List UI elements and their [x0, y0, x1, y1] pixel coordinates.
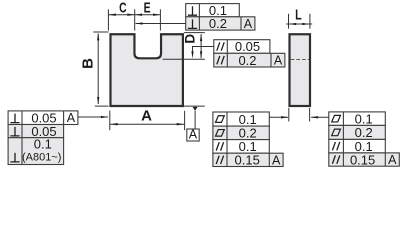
feature control frame FCF4 row3: parallelism 0.1 — [213, 139, 269, 154]
svg-text:D: D — [183, 34, 198, 44]
side view hidden center dashed line — [291, 59, 309, 61]
feature control frame FCF5 row4: parallelism 0.15 A — [329, 152, 400, 167]
feature control frame FCF3 row2: perpendicularity 0.05 — [8, 124, 64, 139]
svg-text:0.15: 0.15 — [350, 152, 375, 167]
feature control frame FCF1 row2: perpendicularity 0.2 A — [186, 16, 255, 31]
feature control frame FCF2 row2: parallelism 0.2 A — [214, 53, 285, 68]
svg-text:B: B — [79, 58, 96, 69]
feature control frame FCF4 row2: flatness 0.2 — [213, 126, 269, 141]
feature control frame FCF4 row4: parallelism 0.15 A — [213, 153, 283, 168]
feature control frame FCF5 row1: flatness 0.1 — [329, 111, 386, 126]
svg-text:A: A — [189, 128, 198, 142]
feature control frame FCF5 row2: flatness 0.2 — [329, 125, 386, 140]
feature control frame FCF3 row1: perpendicularity 0.05 A — [8, 110, 78, 125]
dimension E — [135, 0, 161, 16]
feature control frame FCF3 row3: perpendicularity 0.1 (A801~) — [8, 137, 64, 165]
extension line: notch left wall — [134, 9, 136, 30]
svg-text:A: A — [274, 54, 283, 68]
svg-text:0.2: 0.2 — [238, 53, 256, 68]
feature control frame FCF2 row1: parallelism 0.05 — [214, 39, 270, 54]
feature control frame FCF4 row1: flatness 0.1 — [213, 112, 269, 127]
leader from FCF3 to A dim extension — [78, 116, 108, 118]
svg-text:0.1: 0.1 — [34, 137, 52, 152]
side view rectangle — [290, 34, 311, 106]
feature control frame FCF5 row3: parallelism 0.1 — [329, 139, 386, 154]
main view: notched block — [111, 34, 183, 106]
svg-text:E: E — [144, 0, 151, 16]
extension line: block left (for C) — [107, 9, 109, 30]
dimension A — [110, 107, 185, 130]
svg-text:A: A — [141, 107, 152, 124]
dimension D — [163, 33, 205, 60]
dimension C — [108, 0, 134, 16]
svg-text:0.1: 0.1 — [355, 111, 373, 126]
extension line below side view left edge — [288, 108, 290, 122]
svg-text:0.2: 0.2 — [355, 125, 373, 140]
dimension B — [79, 32, 108, 106]
svg-text:C: C — [119, 0, 127, 16]
leader from FCF1 to notch left wall — [135, 22, 185, 24]
datum A symbol under main view — [184, 106, 205, 142]
dimension L — [286, 7, 312, 29]
svg-text:0.15: 0.15 — [235, 153, 260, 168]
svg-text:A: A — [272, 153, 281, 167]
feature control frame FCF1 row1: perpendicularity 0.1 — [186, 3, 240, 18]
leader from FCF2 to notch bottom — [191, 47, 213, 59]
svg-text:A: A — [244, 17, 253, 31]
svg-text:A: A — [67, 111, 76, 125]
svg-text:L: L — [295, 7, 302, 24]
leader from FCF5 to side view right edge — [311, 116, 329, 118]
svg-text:A: A — [388, 153, 397, 167]
svg-text:0.1: 0.1 — [239, 112, 257, 127]
extension line below side view right edge — [309, 108, 311, 122]
svg-text:(A801~): (A801~) — [22, 151, 61, 163]
extension line: notch right wall — [159, 9, 161, 30]
svg-text:0.2: 0.2 — [209, 16, 227, 31]
leader from FCF4 to side view left edge — [269, 116, 288, 118]
